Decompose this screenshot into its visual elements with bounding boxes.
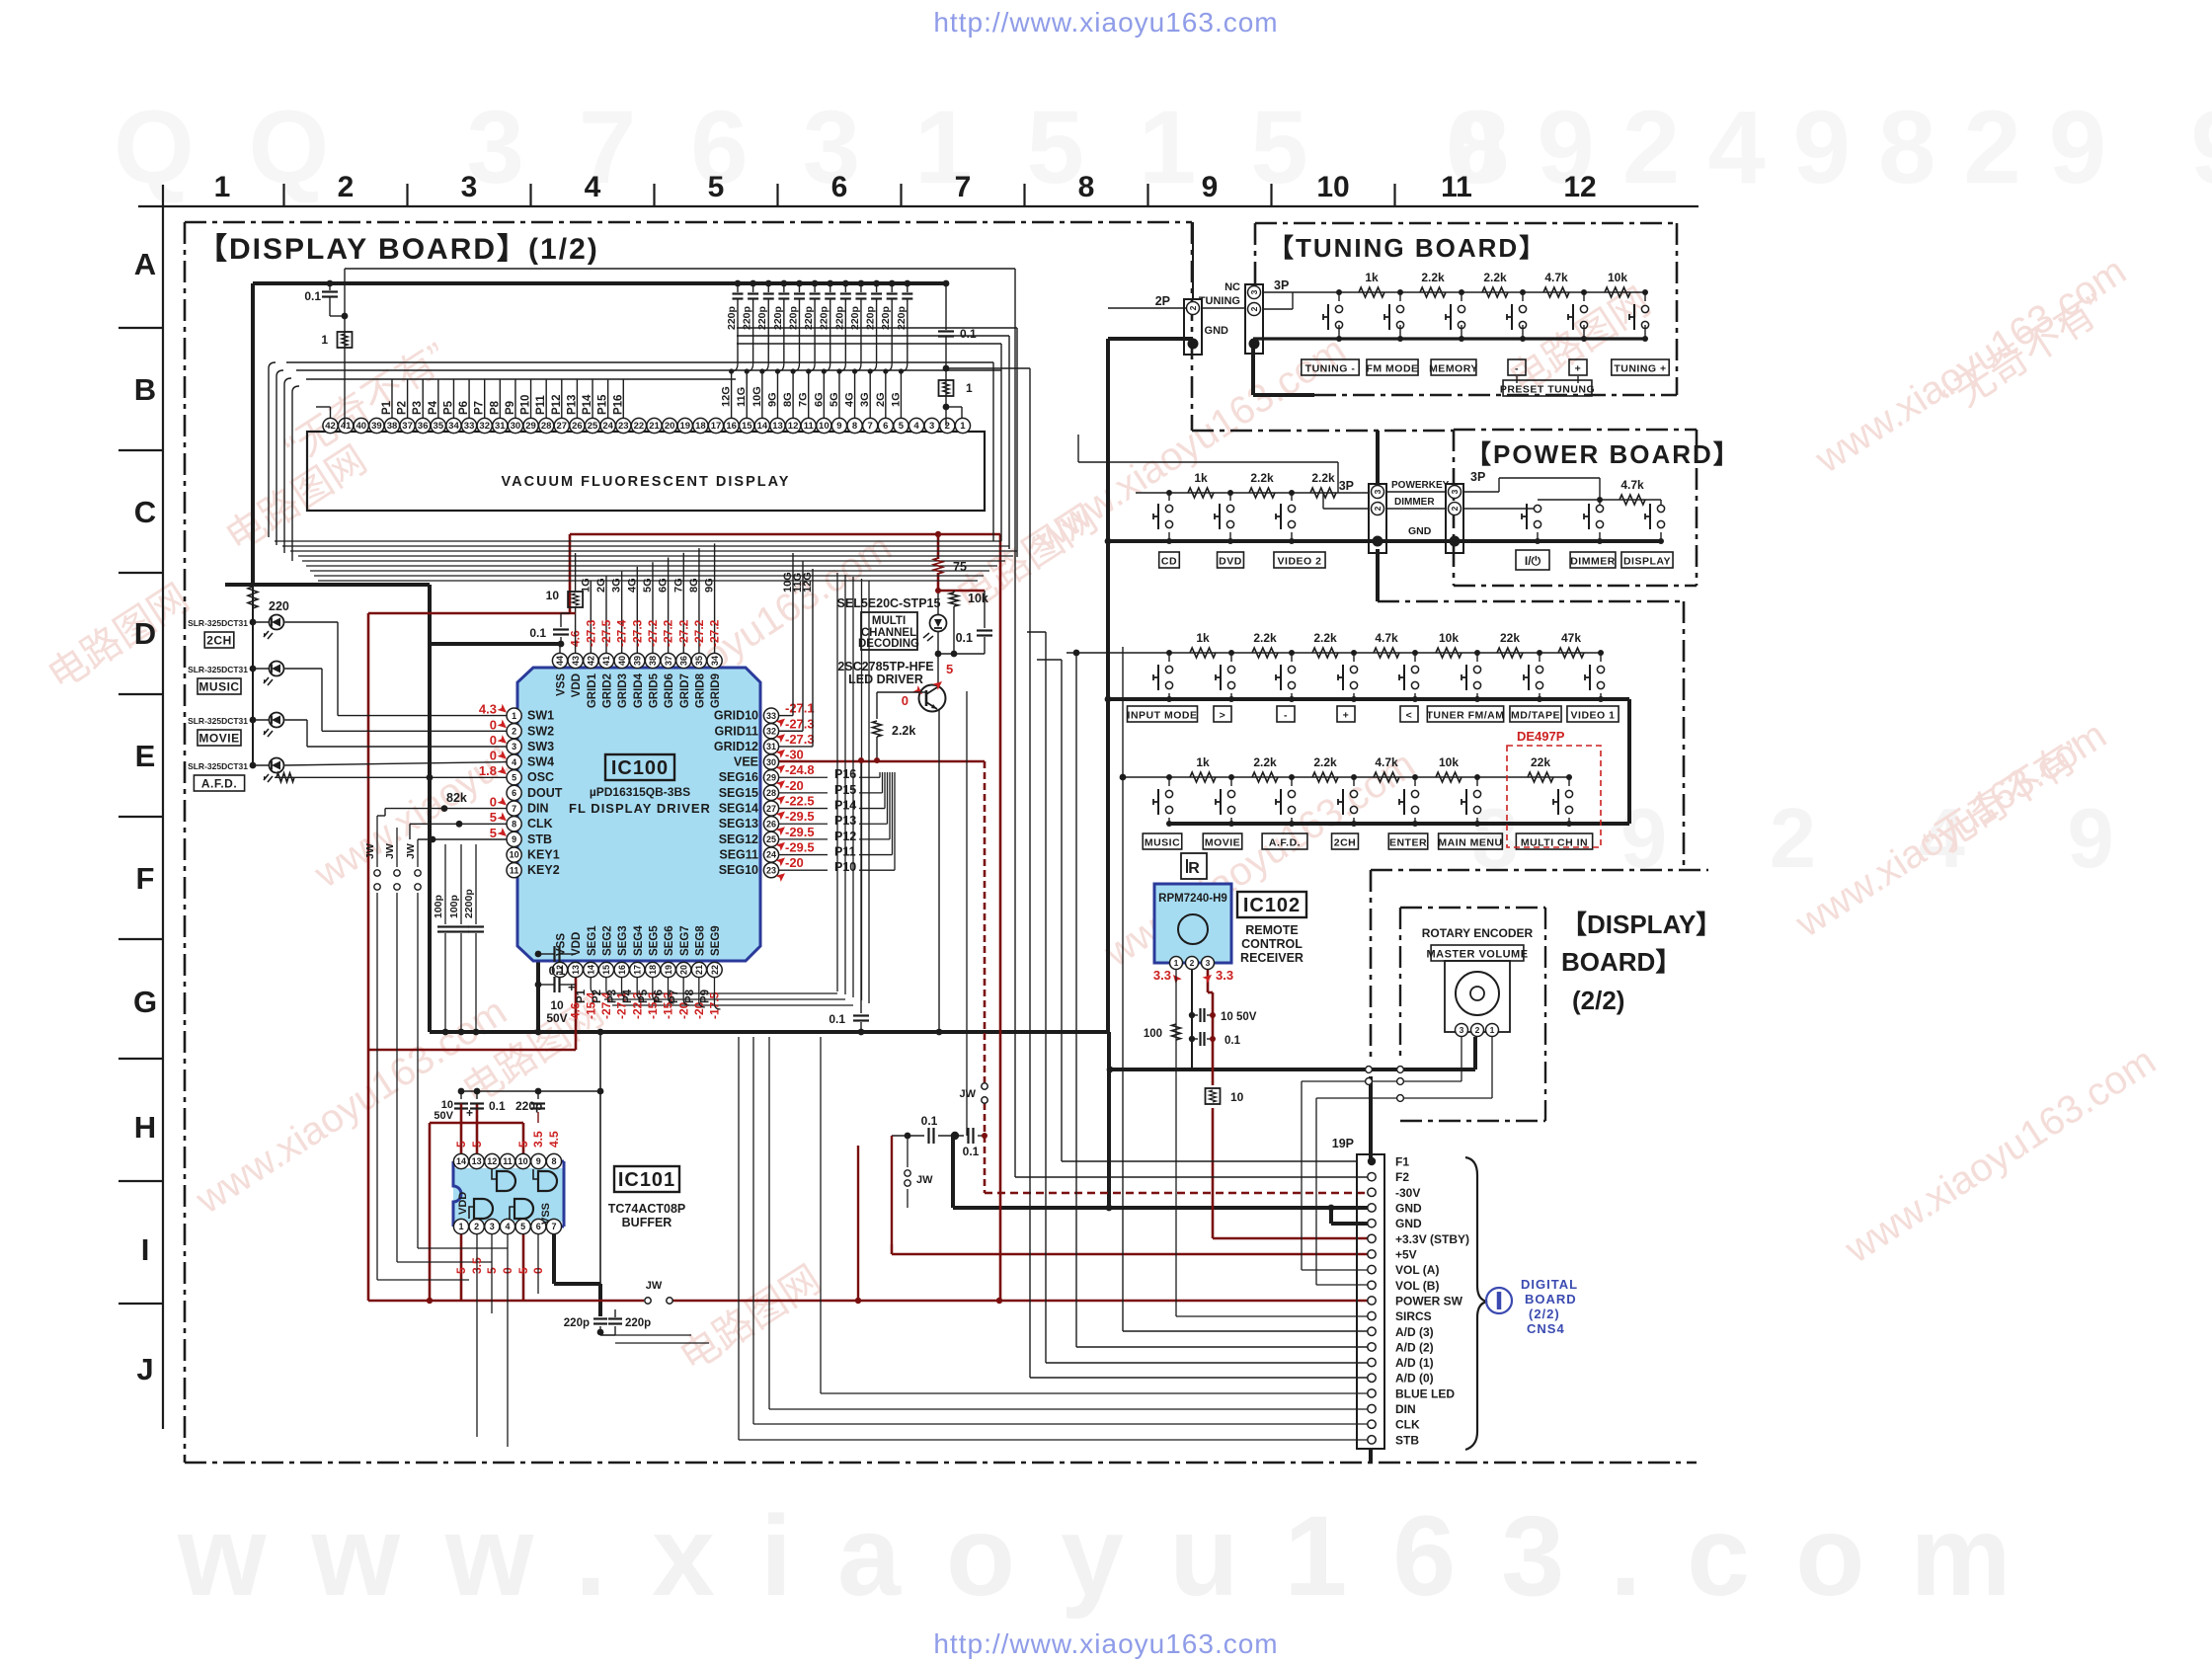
IC101 top caps	[460, 1091, 462, 1099]
svg-text:H: H	[134, 1110, 156, 1145]
svg-text:P7: P7	[474, 401, 486, 415]
svg-text:3G: 3G	[859, 392, 871, 407]
svg-text:P14: P14	[834, 799, 856, 813]
wire maroon +5V	[891, 1244, 894, 1254]
wire maroon ic102 pin3	[1207, 968, 1210, 992]
svg-text:3.3: 3.3	[1153, 968, 1171, 983]
cap cluster 0.1 0.1 y1150	[892, 1135, 924, 1137]
svg-text:RPM7240-H9: RPM7240-H9	[1158, 893, 1227, 905]
svg-text:I/⏻: I/⏻	[1525, 554, 1541, 568]
input row labels	[1128, 706, 1198, 722]
svg-text:13: 13	[571, 965, 581, 975]
svg-text:J: J	[136, 1352, 153, 1386]
19P pin +3.3V (STBY)	[1368, 1234, 1376, 1242]
svg-text:27: 27	[766, 804, 776, 814]
VFD box	[307, 432, 985, 511]
svg-text:-20: -20	[785, 855, 804, 870]
svg-text:220p: 220p	[515, 1099, 542, 1113]
svg-text:-29.5: -29.5	[785, 825, 815, 839]
cap 0.1 vdd	[560, 613, 562, 627]
svg-text:VACUUM FLUORESCENT DISPLAY: VACUUM FLUORESCENT DISPLAY	[502, 474, 791, 490]
wire thick power 3P stub below	[1376, 549, 1380, 601]
svg-text:-: -	[1284, 710, 1288, 722]
svg-text:42: 42	[325, 421, 336, 432]
svg-text:SEG9: SEG9	[710, 925, 722, 956]
wire thick x435	[428, 585, 432, 1032]
svg-text:-27.5: -27.5	[599, 619, 613, 647]
svg-text:2.2k: 2.2k	[892, 724, 915, 738]
svg-text:DIN: DIN	[1395, 1402, 1416, 1416]
wire thick ic100 gnd y652	[430, 642, 561, 646]
svg-text:SEL5E20C-STP15: SEL5E20C-STP15	[837, 596, 941, 610]
wire maroon x1013	[999, 534, 1002, 1301]
svg-text:SEG15: SEG15	[719, 786, 758, 800]
svg-text:SLR-325DCT31: SLR-325DCT31	[188, 716, 248, 726]
svg-text:13: 13	[472, 1156, 482, 1166]
input row switches	[1166, 650, 1172, 656]
cap 0.1 at pin2 right	[945, 283, 947, 330]
P-net lower band	[596, 992, 837, 994]
svg-text:DISPLAY: DISPLAY	[1623, 556, 1671, 568]
svg-text:GRID7: GRID7	[679, 673, 691, 708]
svg-text:-27.2: -27.2	[676, 619, 690, 647]
wire x1043 drop	[1029, 368, 1031, 1378]
svg-text:24: 24	[602, 421, 613, 432]
svg-text:(2/2): (2/2)	[1529, 1307, 1560, 1321]
3P connector tuning	[1245, 284, 1263, 354]
svg-text:F2: F2	[1395, 1170, 1409, 1184]
svg-text:SEG2: SEG2	[601, 925, 613, 956]
svg-text:8: 8	[512, 819, 516, 829]
digital board symbol	[1486, 1288, 1512, 1313]
wire pin1 elbow	[946, 406, 962, 408]
svg-text:2: 2	[1450, 506, 1460, 511]
resistor box 10 maroon	[1206, 1088, 1221, 1104]
svg-text:37: 37	[664, 656, 673, 666]
svg-text:50V: 50V	[434, 1110, 453, 1122]
power board box	[1454, 429, 1697, 432]
svg-text:4.3: 4.3	[479, 702, 497, 717]
resistor 10k music row	[1436, 772, 1461, 782]
svg-text:G: G	[133, 985, 157, 1019]
IC101 and gates	[492, 1169, 497, 1179]
svg-text:FL DISPLAY DRIVER: FL DISPLAY DRIVER	[569, 801, 711, 816]
svg-text:14: 14	[757, 421, 768, 432]
wire thick VFD top bus	[253, 281, 946, 285]
svg-text:8: 8	[852, 421, 857, 432]
wire maroon x373	[367, 613, 370, 1301]
wire maroon y541	[570, 533, 1000, 536]
jumper JW on vee drop	[982, 1083, 987, 1089]
19P pin POWER SW	[1368, 1297, 1376, 1305]
tuning switch labels	[1302, 359, 1359, 375]
wire thick music rail gnd	[1169, 822, 1629, 826]
svg-text:23: 23	[766, 865, 776, 875]
music rail	[1123, 776, 1569, 778]
wire thick left drop	[251, 283, 255, 585]
svg-text:+: +	[1575, 363, 1582, 375]
svg-text:TUNING +: TUNING +	[1614, 363, 1666, 375]
svg-text:-: -	[1515, 363, 1519, 375]
svg-text:0.1: 0.1	[304, 289, 321, 303]
IC101 blue outline	[453, 1161, 564, 1227]
svg-text:FM MODE: FM MODE	[1366, 363, 1418, 375]
svg-text:11: 11	[503, 1156, 513, 1166]
svg-text:I: I	[141, 1232, 150, 1267]
svg-text:JW: JW	[960, 1088, 977, 1100]
svg-text:MUSIC: MUSIC	[1145, 837, 1180, 849]
svg-text:3: 3	[512, 742, 516, 752]
svg-text:3P: 3P	[1339, 479, 1354, 493]
maroon stub x903	[891, 1136, 893, 1244]
19P pin F2	[1368, 1172, 1376, 1180]
svg-text:4.7k: 4.7k	[1544, 271, 1568, 284]
svg-text:JW: JW	[405, 843, 417, 859]
svg-text:A.F.D.: A.F.D.	[1269, 837, 1301, 849]
svg-text:P3: P3	[412, 401, 424, 415]
jumper JW on power-sw wire	[645, 1298, 651, 1304]
svg-text:<: <	[1406, 710, 1413, 722]
svg-text:1: 1	[960, 421, 966, 432]
svg-text:P1: P1	[381, 400, 393, 415]
svg-text:IC100: IC100	[611, 757, 669, 779]
svg-text:P2: P2	[397, 401, 409, 415]
caps 0.1 and 10 50V at vss12	[553, 946, 555, 962]
svg-text:100p: 100p	[433, 895, 444, 918]
svg-text:1k: 1k	[1365, 271, 1379, 284]
svg-text:SEG14: SEG14	[719, 802, 758, 816]
resistor 1k input row	[1190, 648, 1216, 658]
svg-text:10k: 10k	[1608, 271, 1627, 284]
svg-text:220p: 220p	[865, 306, 877, 330]
tuning gnd rail	[1253, 337, 1645, 340]
svg-text:VOL (B): VOL (B)	[1395, 1279, 1439, 1293]
svg-text:P6: P6	[654, 990, 666, 1003]
svg-text:31: 31	[495, 421, 506, 432]
svg-text:2: 2	[512, 726, 516, 736]
svg-text:KEY2: KEY2	[527, 863, 560, 877]
svg-text:11G: 11G	[736, 387, 748, 407]
svg-text:14: 14	[456, 1156, 466, 1166]
svg-text:220p: 220p	[756, 306, 768, 330]
resistor 2.2k music row	[1252, 772, 1278, 782]
svg-text:2: 2	[474, 1222, 479, 1231]
svg-text:29: 29	[766, 772, 776, 782]
IC102 label box	[1237, 892, 1306, 917]
resistor 2.2k input row	[1252, 648, 1278, 658]
svg-text:28: 28	[766, 788, 776, 798]
svg-text:9G: 9G	[704, 578, 716, 593]
wire y373 right	[946, 367, 1030, 369]
svg-text:17: 17	[711, 421, 722, 432]
encoder body	[1445, 961, 1510, 1032]
svg-text:OSC: OSC	[527, 770, 554, 784]
svg-text:BUFFER: BUFFER	[622, 1216, 672, 1229]
svg-text:2: 2	[1373, 506, 1382, 511]
svg-text:GRID2: GRID2	[601, 673, 613, 708]
IC101 top bus	[461, 1090, 600, 1092]
svg-text:0: 0	[490, 717, 497, 732]
svg-text:-29.5: -29.5	[785, 840, 815, 855]
svg-text:A/D (3): A/D (3)	[1395, 1325, 1434, 1339]
IC100 body	[517, 668, 760, 961]
svg-text:0.1: 0.1	[921, 1114, 938, 1128]
svg-text:4: 4	[585, 171, 601, 203]
svg-text:P4: P4	[428, 400, 439, 415]
IC100 grid wires up	[590, 581, 592, 653]
resistor at led rail	[248, 587, 258, 608]
wire bundle corners to AD rows	[1029, 1331, 1031, 1378]
svg-text:2CH: 2CH	[206, 634, 232, 648]
encoder pin wires	[1461, 1037, 1462, 1081]
svg-text:44: 44	[555, 656, 565, 666]
boundary link to power board	[1192, 430, 1454, 433]
svg-text:100: 100	[1144, 1028, 1162, 1040]
display board 1/2 boundary top	[185, 221, 1192, 224]
svg-text:19P: 19P	[1332, 1137, 1354, 1150]
svg-text:+: +	[1343, 710, 1350, 722]
svg-text:19: 19	[664, 965, 673, 975]
svg-text:5: 5	[520, 1222, 525, 1231]
display board 2/2 region top	[1371, 869, 1708, 872]
IR symbol box	[1181, 853, 1207, 879]
svg-text:【DISPLAY】: 【DISPLAY】	[1561, 910, 1721, 939]
svg-text:IC102: IC102	[1243, 895, 1301, 916]
display board 1/2 boundary bottom	[185, 1462, 1697, 1465]
grid wire bends to pins 16-5	[732, 363, 738, 371]
2P connector	[1184, 299, 1202, 355]
LED 2CH	[250, 619, 257, 626]
svg-text:32: 32	[479, 421, 490, 432]
svg-text:0.1: 0.1	[963, 1145, 980, 1158]
svg-text:220p: 220p	[896, 306, 908, 330]
svg-text:3P: 3P	[1274, 278, 1289, 292]
svg-text:VIDEO 2: VIDEO 2	[1278, 556, 1322, 568]
svg-text:10: 10	[550, 998, 564, 1012]
svg-text:3.3: 3.3	[1216, 968, 1233, 983]
svg-text:3G: 3G	[611, 578, 623, 593]
svg-text:+5V: +5V	[1395, 1247, 1417, 1261]
resistor box 1 at pin2	[939, 380, 954, 396]
svg-text:9: 9	[836, 421, 841, 432]
IC101 body fill	[453, 1168, 564, 1222]
IC101 top pins	[453, 1153, 468, 1168]
middle region boundary	[1378, 600, 1684, 603]
svg-text:42: 42	[587, 656, 596, 666]
IC100 bottom pins 12-22	[552, 962, 567, 977]
svg-text:SW1: SW1	[527, 709, 554, 723]
svg-text:1G: 1G	[890, 392, 902, 407]
svg-text:GRID1: GRID1	[587, 673, 598, 708]
IC101 misc pin wires	[476, 1234, 478, 1437]
svg-text:IC101: IC101	[618, 1169, 675, 1191]
svg-text:5: 5	[490, 826, 497, 840]
svg-text:12: 12	[487, 1156, 497, 1166]
svg-text:3: 3	[1373, 489, 1382, 494]
svg-text:5G: 5G	[642, 578, 654, 593]
svg-text:2.2k: 2.2k	[1421, 271, 1445, 284]
resistor 4.7k music row	[1374, 772, 1399, 782]
cap 0.1 led	[984, 591, 986, 628]
svg-text:CD: CD	[1161, 556, 1177, 568]
svg-text:http://www.xiaoyu163.com: http://www.xiaoyu163.com	[933, 7, 1278, 38]
svg-text:34: 34	[710, 656, 720, 666]
IC100 seg right wires	[779, 776, 828, 778]
svg-text:GRID12: GRID12	[714, 740, 758, 753]
IC102 pin1 wire	[1175, 970, 1177, 1316]
svg-text:2200p: 2200p	[463, 889, 475, 918]
svg-text:82k: 82k	[446, 791, 467, 805]
svg-text:GRID4: GRID4	[633, 673, 645, 708]
wire maroon +3.3V	[1212, 1108, 1215, 1238]
svg-text:13: 13	[772, 421, 783, 432]
svg-text:P5: P5	[638, 989, 650, 1003]
IC101 bottom pins	[453, 1219, 468, 1233]
svg-text:50V: 50V	[546, 1011, 567, 1025]
svg-text:2: 2	[1190, 958, 1195, 968]
svg-text:GND: GND	[1408, 525, 1432, 537]
LED MOVIE	[250, 717, 257, 724]
svg-text:MD/TAPE: MD/TAPE	[1511, 710, 1560, 722]
svg-text:-20: -20	[785, 778, 804, 793]
svg-text:29: 29	[525, 421, 536, 432]
svg-text:0: 0	[490, 795, 497, 810]
19P pin GND	[1368, 1219, 1376, 1227]
grid horizontals to cap bank	[737, 327, 1017, 329]
svg-text:SW3: SW3	[527, 740, 554, 753]
svg-text:-27.3: -27.3	[584, 619, 597, 647]
din wire	[385, 808, 507, 810]
svg-text:3: 3	[1206, 958, 1211, 968]
svg-text:1: 1	[1490, 1025, 1495, 1035]
svg-text:33: 33	[464, 421, 475, 432]
svg-text:VSS: VSS	[540, 1203, 552, 1225]
svg-text:220p: 220p	[819, 306, 830, 330]
wire maroon vee row	[771, 760, 985, 763]
svg-text:8: 8	[1078, 171, 1095, 203]
led driver junctions	[938, 653, 985, 655]
svg-text:F: F	[136, 861, 155, 896]
svg-text:36: 36	[678, 656, 688, 666]
svg-text:2: 2	[1188, 305, 1198, 310]
19P pin -30V	[1368, 1188, 1376, 1196]
watermark pink diagonal texts	[40, 249, 2164, 1380]
svg-text:DIMMER: DIMMER	[1570, 556, 1616, 568]
19P pin DIN	[1368, 1404, 1376, 1412]
IC102 body	[1154, 884, 1231, 963]
svg-text:VDD: VDD	[571, 932, 583, 956]
svg-text:4: 4	[505, 1222, 510, 1231]
svg-text:3: 3	[1460, 1025, 1464, 1035]
svg-text:0.1: 0.1	[1224, 1035, 1241, 1047]
svg-text:2.2k: 2.2k	[1253, 631, 1277, 645]
junction dots maroon	[935, 531, 941, 537]
ruler top line	[138, 205, 1698, 207]
svg-text:SEG4: SEG4	[633, 925, 645, 956]
resistor 10k input row	[1436, 648, 1461, 658]
svg-text:1: 1	[321, 333, 328, 347]
svg-text:0.1: 0.1	[549, 964, 566, 978]
svg-text:7: 7	[868, 421, 873, 432]
19P pin VOL (A)	[1368, 1265, 1376, 1273]
svg-text:R: R	[1188, 860, 1200, 877]
svg-text:2SC2785TP-HFE: 2SC2785TP-HFE	[837, 660, 933, 673]
svg-text:2P: 2P	[1155, 294, 1170, 308]
svg-text:JW: JW	[384, 843, 396, 859]
svg-text:BOARD: BOARD	[1525, 1292, 1577, 1307]
resistor 4.7k tuning	[1543, 287, 1569, 297]
svg-text:100p: 100p	[448, 895, 460, 918]
svg-text:4.6: 4.6	[569, 1002, 583, 1019]
maroon vert x869	[857, 1146, 859, 1301]
svg-text:GRID8: GRID8	[694, 673, 706, 708]
svg-text:-30: -30	[785, 748, 804, 762]
svg-text:SEG6: SEG6	[664, 925, 675, 956]
svg-text:0.1: 0.1	[956, 631, 973, 645]
19P pin +5V	[1368, 1250, 1376, 1258]
svg-text:JW: JW	[916, 1174, 933, 1186]
svg-text:31: 31	[766, 742, 776, 752]
svg-text:28: 28	[541, 421, 552, 432]
svg-text:P5: P5	[442, 400, 454, 415]
ruler column ticks	[282, 184, 284, 206]
svg-text:C: C	[134, 495, 156, 529]
cap 0.1 at pin41	[329, 283, 331, 290]
svg-text:P2: P2	[592, 990, 603, 1003]
svg-text:5: 5	[899, 421, 905, 432]
svg-text:GRID9: GRID9	[710, 673, 722, 708]
svg-text:38: 38	[648, 656, 658, 666]
svg-text:DOUT: DOUT	[527, 786, 563, 800]
svg-text:21: 21	[694, 965, 704, 975]
wire F1 to 19P	[1062, 1160, 1357, 1162]
wire thick y592	[225, 583, 430, 587]
svg-text:P16: P16	[612, 395, 624, 415]
jw jumper below cluster	[907, 1136, 908, 1167]
svg-text:MUSIC: MUSIC	[198, 680, 239, 694]
svg-text:VIDEO 1: VIDEO 1	[1571, 710, 1616, 722]
VFD P bus top lines	[306, 378, 736, 380]
wire thick right drop x1650	[1627, 699, 1631, 824]
resistor 1k tuning	[1359, 287, 1384, 297]
svg-text:P3: P3	[607, 990, 619, 1003]
resistor 22k input row	[1497, 648, 1523, 658]
svg-text:-27.3: -27.3	[785, 732, 815, 747]
svg-text:>: >	[1220, 710, 1226, 722]
svg-text:【TUNING BOARD】: 【TUNING BOARD】	[1268, 233, 1546, 263]
svg-text:4: 4	[913, 421, 919, 432]
resistor 75	[934, 558, 943, 574]
svg-text:SIRCS: SIRCS	[1395, 1309, 1432, 1323]
svg-text:4.7k: 4.7k	[1620, 478, 1644, 492]
svg-text:3: 3	[929, 421, 934, 432]
3P connector power left	[1369, 484, 1386, 553]
svg-text:16: 16	[726, 421, 737, 432]
caps at IC102	[1192, 1014, 1198, 1016]
svg-text:8G: 8G	[782, 392, 794, 407]
svg-text:35: 35	[694, 656, 704, 666]
svg-text:16: 16	[617, 965, 627, 975]
svg-text:MAIN MENU: MAIN MENU	[1438, 837, 1502, 849]
svg-text:A/D (0): A/D (0)	[1395, 1372, 1434, 1386]
svg-text:1G: 1G	[580, 578, 592, 593]
cd ladder rail	[1136, 492, 1370, 494]
tuning switches	[1336, 289, 1342, 295]
preset tunung box	[1516, 376, 1518, 383]
svg-text:0.1: 0.1	[829, 1012, 845, 1026]
svg-text:GRID10: GRID10	[714, 709, 758, 723]
resistor 1k cd ladder	[1188, 488, 1214, 498]
